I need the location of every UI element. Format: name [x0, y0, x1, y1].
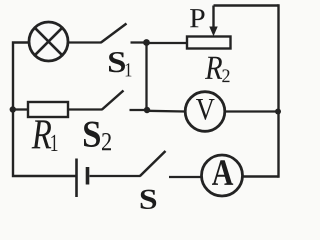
label S2 subscript: [102, 133, 111, 150]
label S1: [109, 52, 125, 72]
voltmeter V: [185, 92, 225, 132]
label S2: [84, 122, 100, 148]
node A: [143, 39, 150, 46]
wire left rail: [13, 43, 76, 177]
slider P arrow: [209, 6, 217, 37]
label A: [212, 160, 233, 185]
wire ammeter to right rail: [243, 175, 279, 177]
wire node A to R2: [147, 42, 188, 44]
wire node D to R1: [13, 108, 28, 110]
switch S: [140, 151, 202, 177]
switch S1: [101, 24, 147, 43]
battery B1: [77, 159, 88, 198]
node C on right rail: [275, 109, 281, 115]
label R2 subscript: [222, 69, 229, 82]
wire node B to voltmeter: [147, 110, 185, 113]
wire R1 to S2: [68, 108, 103, 110]
label R1: [32, 120, 52, 148]
label V: [196, 99, 215, 120]
rheostat R2: [187, 37, 231, 49]
label P: [190, 9, 205, 27]
resistor R1: [28, 102, 68, 117]
wire slider to right rail: [214, 4, 279, 6]
node D on left rail: [10, 106, 16, 112]
ammeter A: [202, 155, 243, 196]
lamp L1: [29, 22, 68, 61]
label S1 subscript: [126, 63, 132, 76]
wire battery to switch S: [90, 175, 141, 177]
label R2: [205, 57, 222, 79]
wire node A down to node B: [145, 43, 147, 111]
label R1 subscript: [51, 135, 57, 151]
switch S2: [102, 91, 147, 111]
wire voltmeter to right rail: [225, 110, 279, 112]
wire lamp to S1: [68, 41, 102, 43]
label S: [141, 190, 157, 209]
node B: [144, 107, 150, 113]
wire right rail: [277, 6, 279, 177]
